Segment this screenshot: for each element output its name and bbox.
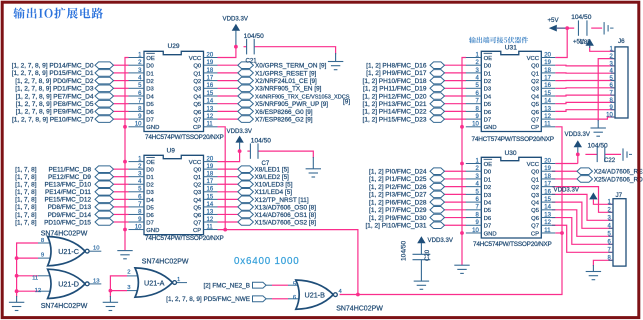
svg-text:[1, 7, 8]: [1, 7, 8] — [15, 204, 37, 211]
node X4 port — [238, 93, 254, 100]
wire FMC_D19 to U31 D3 — [445, 87, 467, 89]
ground for C20 — [414, 281, 429, 289]
U29 pin 20 (VCC) — [204, 57, 218, 59]
node PD0/FMC_D2 port — [95, 77, 114, 84]
wire VDD node to C7 — [247, 150, 250, 152]
wire U31 Q4 to J6 pin7 — [555, 94, 615, 97]
svg-text:15: 15 — [207, 91, 214, 97]
svg-text:15: 15 — [544, 197, 551, 203]
svg-text:D4: D4 — [484, 201, 492, 207]
U30 pin 18 (Q1) — [541, 178, 555, 180]
svg-text:Q0: Q0 — [531, 170, 540, 176]
node PH9/FMC_D17 port — [430, 70, 445, 77]
svg-text:[1, 2, 7, 8, 9] PE8/FMC_D5: [1, 2, 7, 8, 9] PE8/FMC_D5 — [16, 101, 94, 108]
power VDD3.3V — [235, 136, 243, 143]
svg-text:[1, 2] PI3/FMC_D27: [1, 2] PI3/FMC_D27 — [369, 192, 427, 199]
wire FMC_D14 to U9 D6 — [114, 213, 129, 215]
svg-text:74HC574PW/TSSOP20/NXP: 74HC574PW/TSSOP20/NXP — [145, 134, 224, 141]
wire FMC_D20 to U31 D4 — [445, 95, 467, 97]
svg-text:Q4: Q4 — [531, 94, 540, 100]
wire stub U21-C pin8 — [38, 242, 52, 244]
svg-text:D7: D7 — [146, 220, 154, 226]
svg-text:X24/AD7606_RES: X24/AD7606_RES — [594, 169, 643, 176]
wire VDD node to C22 — [585, 153, 597, 155]
wire stub U21-B pin6 — [266, 298, 272, 300]
U29 pin 5 (D3) — [129, 87, 145, 89]
svg-text:X2/NRF24L01_CE [9]: X2/NRF24L01_CE [9] — [255, 78, 317, 85]
U31 pin 14 (Q5) — [541, 103, 555, 105]
wire U29 VCC to VDD3.3V — [218, 47, 236, 58]
U9 pin 11 (CP) — [204, 229, 218, 231]
svg-text:PD10/FMC_D15: PD10/FMC_D15 — [44, 219, 91, 226]
node PD15/FMC_D1 port — [95, 70, 114, 77]
svg-text:20: 20 — [544, 52, 551, 58]
wire stub U21-B pin5 inner — [288, 284, 301, 286]
U29 pin 18 (Q1) — [204, 72, 218, 74]
U30 pin 13 (Q6) — [541, 217, 555, 219]
wire FMC_D12 to U9 D4 — [114, 198, 129, 200]
ground U29/U9 rail — [117, 251, 132, 259]
node PI10/FMC_D31 port — [430, 222, 445, 229]
U30 pin 5 (D3) — [466, 193, 482, 195]
junction CP at U9 — [223, 228, 227, 232]
svg-text:D2: D2 — [146, 79, 154, 85]
svg-text:13: 13 — [93, 279, 100, 285]
svg-text:104/50: 104/50 — [244, 33, 265, 40]
node PD14/FMC_D0 port — [95, 62, 114, 69]
wire rail to U21-D pin11 — [17, 275, 38, 277]
wire U9 Q6 to X14 tag — [218, 213, 238, 215]
svg-text:[1, 2] PH13/FMC_D21: [1, 2] PH13/FMC_D21 — [363, 101, 427, 108]
U29 pin 8 (D6) — [129, 110, 145, 112]
svg-text:[1, 2, 7, 8, 9] PE10/FMC_D7: [1, 2, 7, 8, 9] PE10/FMC_D7 — [12, 116, 94, 123]
node PH13/FMC_D21 port — [430, 100, 445, 107]
svg-text:Q7: Q7 — [193, 220, 201, 226]
wire FMC_D5 to U29 D5 — [114, 103, 129, 105]
svg-text:PE12/FMC_D9: PE12/FMC_D9 — [48, 174, 91, 181]
svg-text:Q3: Q3 — [193, 87, 202, 93]
svg-text:GND: GND — [146, 228, 159, 234]
svg-text:D5: D5 — [484, 208, 492, 214]
node PI9/FMC_D30 port — [430, 214, 445, 221]
U29 pin 13 (Q6) — [204, 110, 218, 112]
U9 pin 13 (Q6) — [204, 213, 218, 215]
svg-text:X12/TP_NRST [11]: X12/TP_NRST [11] — [255, 197, 309, 204]
svg-text:18: 18 — [544, 68, 551, 74]
svg-text:20: 20 — [207, 52, 214, 58]
svg-text:X0/GPRS_TERM_ON [9]: X0/GPRS_TERM_ON [9] — [255, 63, 327, 70]
wire C23 stub — [629, 153, 632, 155]
svg-text:D6: D6 — [146, 213, 154, 219]
IC U31 (U31) body — [481, 51, 541, 131]
node PH8/FMC_D16 port — [430, 62, 445, 69]
svg-text:VCC: VCC — [189, 160, 202, 166]
wire U29 Q5 to X5 tag — [218, 103, 238, 105]
ground U31/U30 rail — [454, 265, 469, 273]
svg-text:[1, 7, 8]: [1, 7, 8] — [15, 219, 37, 226]
svg-text:Q6: Q6 — [193, 213, 202, 219]
svg-text:X7/ESP8266_G2 [9]: X7/ESP8266_G2 [9] — [255, 117, 313, 124]
wire rail to U21-D pin12 — [17, 290, 38, 292]
svg-text:X25/AD7606_RD: X25/AD7606_RD — [594, 176, 643, 183]
U31 pin 19 (Q0) — [541, 64, 555, 66]
U31 pin 17 (Q2) — [541, 80, 555, 82]
svg-text:Q6: Q6 — [531, 216, 540, 222]
svg-text:X14/AD7606_OS1 [8]: X14/AD7606_OS1 [8] — [255, 212, 317, 219]
wire FMC_D27 to U30 D3 — [445, 193, 467, 195]
svg-text:19: 19 — [544, 166, 551, 172]
U29 pin 2 (D0) — [129, 64, 145, 66]
J7 pin 6 — [609, 243, 614, 245]
wire U29 Q0 to X0 tag — [218, 64, 238, 66]
svg-text:[1, 7, 8]: [1, 7, 8] — [15, 166, 37, 173]
J7 pin 5 — [609, 235, 614, 237]
wire FMC_NE2_B to U21-B pin5 — [272, 284, 288, 286]
wire stub U21-B pin6 inner — [288, 298, 301, 300]
svg-text:[1, 2] PH8/FMC_D16: [1, 2] PH8/FMC_D16 — [366, 63, 427, 70]
node FMC_NE2_B port — [253, 282, 267, 288]
U31 pin 6 (D4) — [466, 95, 482, 97]
wire FMC_D31 to U30 D7 — [445, 224, 467, 226]
wire FMC_D7 to U29 D7 — [114, 118, 129, 120]
svg-text:D1: D1 — [484, 71, 492, 77]
junction U31 GND rail — [460, 125, 464, 129]
J6 pin 7 — [611, 94, 616, 96]
svg-text:VDD3.3V: VDD3.3V — [227, 128, 253, 135]
U9 pin 19 (Q0) — [204, 168, 218, 170]
svg-text:PE14/FMC_D11: PE14/FMC_D11 — [45, 189, 91, 196]
svg-text:16: 16 — [207, 83, 214, 89]
svg-text:VCC: VCC — [527, 162, 540, 168]
power VDD3.3V — [232, 24, 240, 31]
svg-text:16: 16 — [544, 189, 551, 195]
NOR gate U21-A — [135, 268, 173, 297]
svg-text:20: 20 — [544, 158, 551, 164]
wire J7 pin8 to ground — [593, 260, 613, 266]
U9 pin 12 (Q7) — [204, 221, 218, 223]
J7 pin 7 — [609, 251, 614, 253]
wire stub U21-D pin12 — [38, 290, 53, 292]
svg-text:Q6: Q6 — [193, 110, 202, 116]
U9 pin 14 (Q5) — [204, 206, 218, 208]
wire FMC_D30 to U30 D6 — [445, 217, 467, 219]
J6 pin 10 — [611, 116, 616, 118]
U9 pin 9 (D7) — [129, 221, 145, 223]
svg-text:Q3: Q3 — [531, 87, 540, 93]
wire U30 Q0 to X24 tag — [552, 170, 577, 172]
ground U21-A inputs — [103, 302, 118, 310]
U31 pin 4 (D2) — [466, 80, 482, 82]
svg-text:OE: OE — [484, 56, 493, 62]
power +5V arrow — [549, 25, 557, 32]
svg-text:19: 19 — [207, 164, 214, 170]
wire FMC_D29 to U30 D5 — [445, 209, 467, 211]
svg-text:VCC: VCC — [189, 56, 202, 62]
wire FMC_D2 to U29 D2 — [114, 80, 129, 82]
svg-text:D2: D2 — [146, 183, 154, 189]
svg-text:Q4: Q4 — [193, 94, 202, 100]
svg-text:6: 6 — [293, 295, 297, 301]
svg-text:D3: D3 — [146, 87, 154, 93]
node PI6/FMC_D28 port — [430, 199, 445, 206]
svg-text:18: 18 — [544, 174, 551, 180]
U9 pin 5 (D3) — [129, 191, 145, 193]
wire U21-C output pin10 — [89, 250, 101, 252]
svg-text:17: 17 — [544, 182, 551, 188]
junction gate rail pin11 — [15, 274, 19, 278]
wire U9 Q0 to X8 tag — [218, 168, 238, 170]
wire U29 Q2 to X2 tag — [218, 80, 238, 82]
svg-text:[1, 2] PI10/FMC_D31: [1, 2] PI10/FMC_D31 — [365, 223, 426, 230]
U30 pin 12 (Q7) — [541, 224, 555, 226]
svg-text:X5/NRF905_PWR_UP [9]: X5/NRF905_PWR_UP [9] — [255, 101, 328, 108]
wire FMC_D26 to U30 D2 — [445, 186, 467, 188]
svg-text:[1, 7, 8]: [1, 7, 8] — [15, 174, 37, 181]
svg-text:Q2: Q2 — [193, 183, 201, 189]
svg-text:SN74HC02PW: SN74HC02PW — [41, 231, 88, 238]
svg-text:U29: U29 — [168, 43, 180, 50]
svg-text:Q6: Q6 — [531, 110, 540, 116]
node PE8/FMC_D5 port — [95, 100, 114, 107]
svg-text:12: 12 — [207, 114, 214, 120]
svg-text:16: 16 — [207, 187, 214, 193]
U29 pin 6 (D4) — [129, 95, 145, 97]
U30 pin 11 (CP) — [541, 232, 555, 234]
connector J6 — [615, 47, 628, 118]
power VDD3.3V — [574, 140, 582, 147]
wire U31 Q0 to J6 pin3 — [555, 64, 615, 67]
svg-text:D6: D6 — [484, 216, 492, 222]
U30 pin 14 (Q5) — [541, 209, 555, 211]
svg-text:D0: D0 — [484, 64, 492, 70]
junction gate rail pin9 — [15, 256, 19, 260]
U31 pin 2 (D0) — [466, 64, 482, 66]
junction U30 OE rail — [460, 162, 464, 166]
wire PD5/FMC_NWE to U21-B pin6 — [272, 298, 288, 300]
node PD5/FMC_NWE port — [253, 296, 267, 302]
wire C21 to ground — [254, 47, 335, 55]
node PI1/FMC_D25 port — [430, 176, 445, 183]
J7 pin 8 — [609, 259, 614, 261]
svg-text:11: 11 — [544, 228, 551, 234]
wire FMC_D25 to U30 D1 — [445, 178, 467, 180]
svg-text:14: 14 — [544, 99, 551, 105]
svg-text:1: 1 — [177, 277, 180, 283]
node PD1/FMC_D3 port — [95, 85, 114, 92]
svg-text:74HC574PW/TSSOP20/NXP: 74HC574PW/TSSOP20/NXP — [145, 235, 224, 242]
svg-text:X4/NRF905_TRX_CE/VS1053_XDCS: X4/NRF905_TRX_CE/VS1053_XDCS — [255, 94, 350, 100]
U30 pin 15 (Q4) — [541, 201, 555, 203]
svg-text:VCC: VCC — [527, 56, 540, 62]
svg-text:GND: GND — [146, 125, 159, 131]
svg-text:Q2: Q2 — [193, 79, 201, 85]
NOR gate U21-B — [296, 280, 334, 309]
capacitor C85 — [578, 20, 587, 35]
svg-text:Q2: Q2 — [531, 185, 539, 191]
wire U30 VCC rail — [555, 163, 578, 165]
power VDD3.3V — [586, 39, 594, 46]
wire J7 ground stem — [592, 265, 594, 272]
node X7 port — [238, 116, 254, 123]
svg-text:13: 13 — [207, 106, 214, 112]
wire U21-A input rail to ground — [110, 276, 127, 297]
svg-text:Q7: Q7 — [193, 118, 201, 124]
junction gate rail pin12 — [15, 289, 19, 293]
U9 pin 7 (D5) — [129, 206, 145, 208]
U31 pin 7 (D5) — [466, 103, 482, 105]
wire U9 Q3 to X11 tag — [218, 191, 238, 193]
wire CP tap to U30 CP — [555, 232, 562, 234]
wire U31 Q6 to J6 pin9 — [555, 110, 615, 112]
svg-text:17: 17 — [207, 179, 214, 185]
wire U30 Q5 to J7 pin5 — [552, 210, 613, 236]
note 输出端可接5伏器件 — [469, 37, 528, 44]
svg-text:9: 9 — [41, 252, 44, 258]
U29 pin 19 (Q0) — [204, 64, 218, 66]
svg-text:D2: D2 — [484, 185, 492, 191]
wire FMC_D16 to U31 D0 — [445, 64, 467, 66]
svg-text:X11/LED4 [5]: X11/LED4 [5] — [255, 189, 293, 196]
node PD8/FMC_D13 port — [95, 204, 114, 211]
junction gate A rail pin3 — [109, 289, 113, 293]
svg-text:D7: D7 — [484, 118, 492, 124]
svg-text:D0: D0 — [484, 170, 492, 176]
node PI3/FMC_D27 port — [430, 191, 445, 198]
wire FMC_D24 to U30 D0 — [445, 170, 467, 172]
U31 pin 8 (D6) — [466, 110, 482, 112]
U9 pin 20 (VCC) — [204, 161, 218, 163]
svg-text:17: 17 — [544, 76, 551, 82]
svg-text:[1, 2] PI1/FMC_D25: [1, 2] PI1/FMC_D25 — [369, 176, 427, 183]
node PI7/FMC_D29 port — [430, 207, 445, 214]
IC U9 (U9) body — [144, 155, 204, 234]
U30 pin 10 (GND) — [466, 232, 482, 234]
node PE15/FMC_D12 port — [95, 196, 114, 203]
svg-text:[1, 2, 7, 8, 9] PE9/FMC_D6: [1, 2, 7, 8, 9] PE9/FMC_D6 — [16, 109, 94, 116]
node X24 port — [577, 168, 593, 175]
svg-text:18: 18 — [207, 68, 214, 74]
svg-text:[1, 7, 8]: [1, 7, 8] — [15, 189, 37, 196]
svg-text:D1: D1 — [146, 71, 154, 77]
power VDD3.3V — [589, 192, 597, 199]
wire U9 Q7 to X15 tag — [218, 221, 238, 223]
capacitor C7 — [250, 143, 258, 158]
ground for C21 — [328, 62, 343, 70]
svg-text:11: 11 — [207, 224, 214, 230]
svg-text:104/50: 104/50 — [571, 14, 592, 21]
junction +5V — [565, 26, 569, 30]
U9 pin 4 (D2) — [129, 183, 145, 185]
J6 pin 4 — [611, 72, 616, 74]
wire CP from U29 down to U9 CP — [218, 127, 226, 230]
IC U29 (U29) body — [144, 51, 204, 131]
wire U9 Q2 to X10 tag — [218, 183, 238, 185]
svg-text:D0: D0 — [146, 168, 154, 174]
U31 pin 15 (Q4) — [541, 95, 555, 97]
wire U31 Q5 to J6 pin8 — [555, 102, 615, 103]
svg-text:Q7: Q7 — [531, 224, 539, 230]
U29 pin 14 (Q5) — [204, 103, 218, 105]
ground for C7 — [306, 169, 321, 177]
svg-text:13: 13 — [207, 209, 214, 215]
svg-text:U21-D: U21-D — [58, 280, 79, 289]
U30 pin 4 (D2) — [466, 186, 482, 188]
svg-text:D7: D7 — [484, 224, 492, 230]
wire FMC_D18 to U31 D2 — [445, 80, 467, 82]
wire FMC_D0 to U29 D0 — [114, 64, 129, 66]
U31 pin 5 (D3) — [466, 87, 482, 89]
svg-text:D1: D1 — [146, 175, 154, 181]
node X0 port — [238, 62, 254, 69]
wire U21-A output pin1 — [177, 282, 187, 284]
wire rail to U21-A pin3 — [110, 290, 127, 292]
wire FMC_D9 to U9 D1 — [114, 176, 129, 178]
wire stub U21-B pin5 — [266, 284, 272, 286]
wire C85 to C86 — [591, 27, 602, 29]
U30 pin 9 (D7) — [466, 224, 482, 226]
U29 pin 16 (Q3) — [204, 87, 218, 89]
svg-text:SN74HC02PW: SN74HC02PW — [41, 303, 88, 310]
wire C22 to C23 — [605, 153, 621, 155]
svg-text:Q1: Q1 — [193, 175, 201, 181]
wire CP U21-B output to U31 CP — [340, 127, 562, 295]
wire C7 ground stem — [312, 157, 314, 169]
capacitor C86 — [604, 22, 608, 34]
wire U29 Q6 to X6 tag — [218, 110, 238, 112]
junction U9 OE rail — [123, 160, 127, 164]
wire rail to U21-C pin9 — [17, 257, 38, 259]
node PE9/FMC_D6 port — [95, 108, 114, 115]
svg-text:Q3: Q3 — [531, 193, 540, 199]
U31 pin 12 (Q7) — [541, 118, 555, 120]
U29 pin 12 (Q7) — [204, 118, 218, 120]
svg-text:10: 10 — [606, 112, 613, 118]
wire C86 stub — [610, 27, 613, 29]
svg-text:VDD3.3V: VDD3.3V — [223, 15, 249, 22]
svg-text:[1, 7, 8]: [1, 7, 8] — [15, 182, 37, 189]
wire J6 pin2 to ground — [598, 59, 615, 121]
U31 pin 16 (Q3) — [541, 87, 555, 89]
svg-text:Q7: Q7 — [531, 118, 539, 124]
svg-text:10: 10 — [93, 246, 100, 252]
U9 pin 15 (Q4) — [204, 198, 218, 200]
svg-text:X10/LED3 [5]: X10/LED3 [5] — [255, 182, 293, 189]
svg-text:[1, 7, 8]: [1, 7, 8] — [15, 212, 37, 219]
svg-text:20: 20 — [207, 157, 214, 163]
node X13 port — [238, 204, 254, 211]
wire U30 Q7 to J7 pin7 — [552, 225, 613, 252]
svg-text:PE15/FMC_D12: PE15/FMC_D12 — [44, 197, 91, 204]
J6 pin 1 — [611, 50, 616, 52]
junction VDD3.3V U9 — [238, 149, 242, 153]
junction CP at U21-B output — [356, 293, 360, 297]
wire CP across to U21-B output riser — [225, 230, 358, 295]
wire U30 VCC riser to VDD3.3V — [577, 154, 579, 163]
svg-text:11: 11 — [544, 122, 551, 128]
svg-text:GND: GND — [484, 231, 497, 237]
svg-text:U9: U9 — [167, 148, 176, 155]
wire FMC_D4 to U29 D4 — [114, 95, 129, 97]
svg-text:[1, 2, 7, 8, 9] PD14/FMC_D0: [1, 2, 7, 8, 9] PD14/FMC_D0 — [12, 63, 94, 70]
svg-text:[1, 2, 7, 8, 9] PD0/FMC_D2: [1, 2, 7, 8, 9] PD0/FMC_D2 — [15, 78, 94, 85]
junction U9 GND rail — [123, 228, 127, 232]
wire U31 Q1 to J6 pin4 — [555, 72, 615, 74]
ground U21-C/D inputs — [9, 302, 24, 310]
wire U29 Q7 to X7 tag — [218, 118, 238, 120]
svg-text:[1, 2] PI6/FMC_D28: [1, 2] PI6/FMC_D28 — [369, 199, 427, 206]
capacitor C20 — [413, 254, 431, 281]
svg-text:[1, 2] PH11/FMC_D19: [1, 2] PH11/FMC_D19 — [363, 86, 427, 93]
